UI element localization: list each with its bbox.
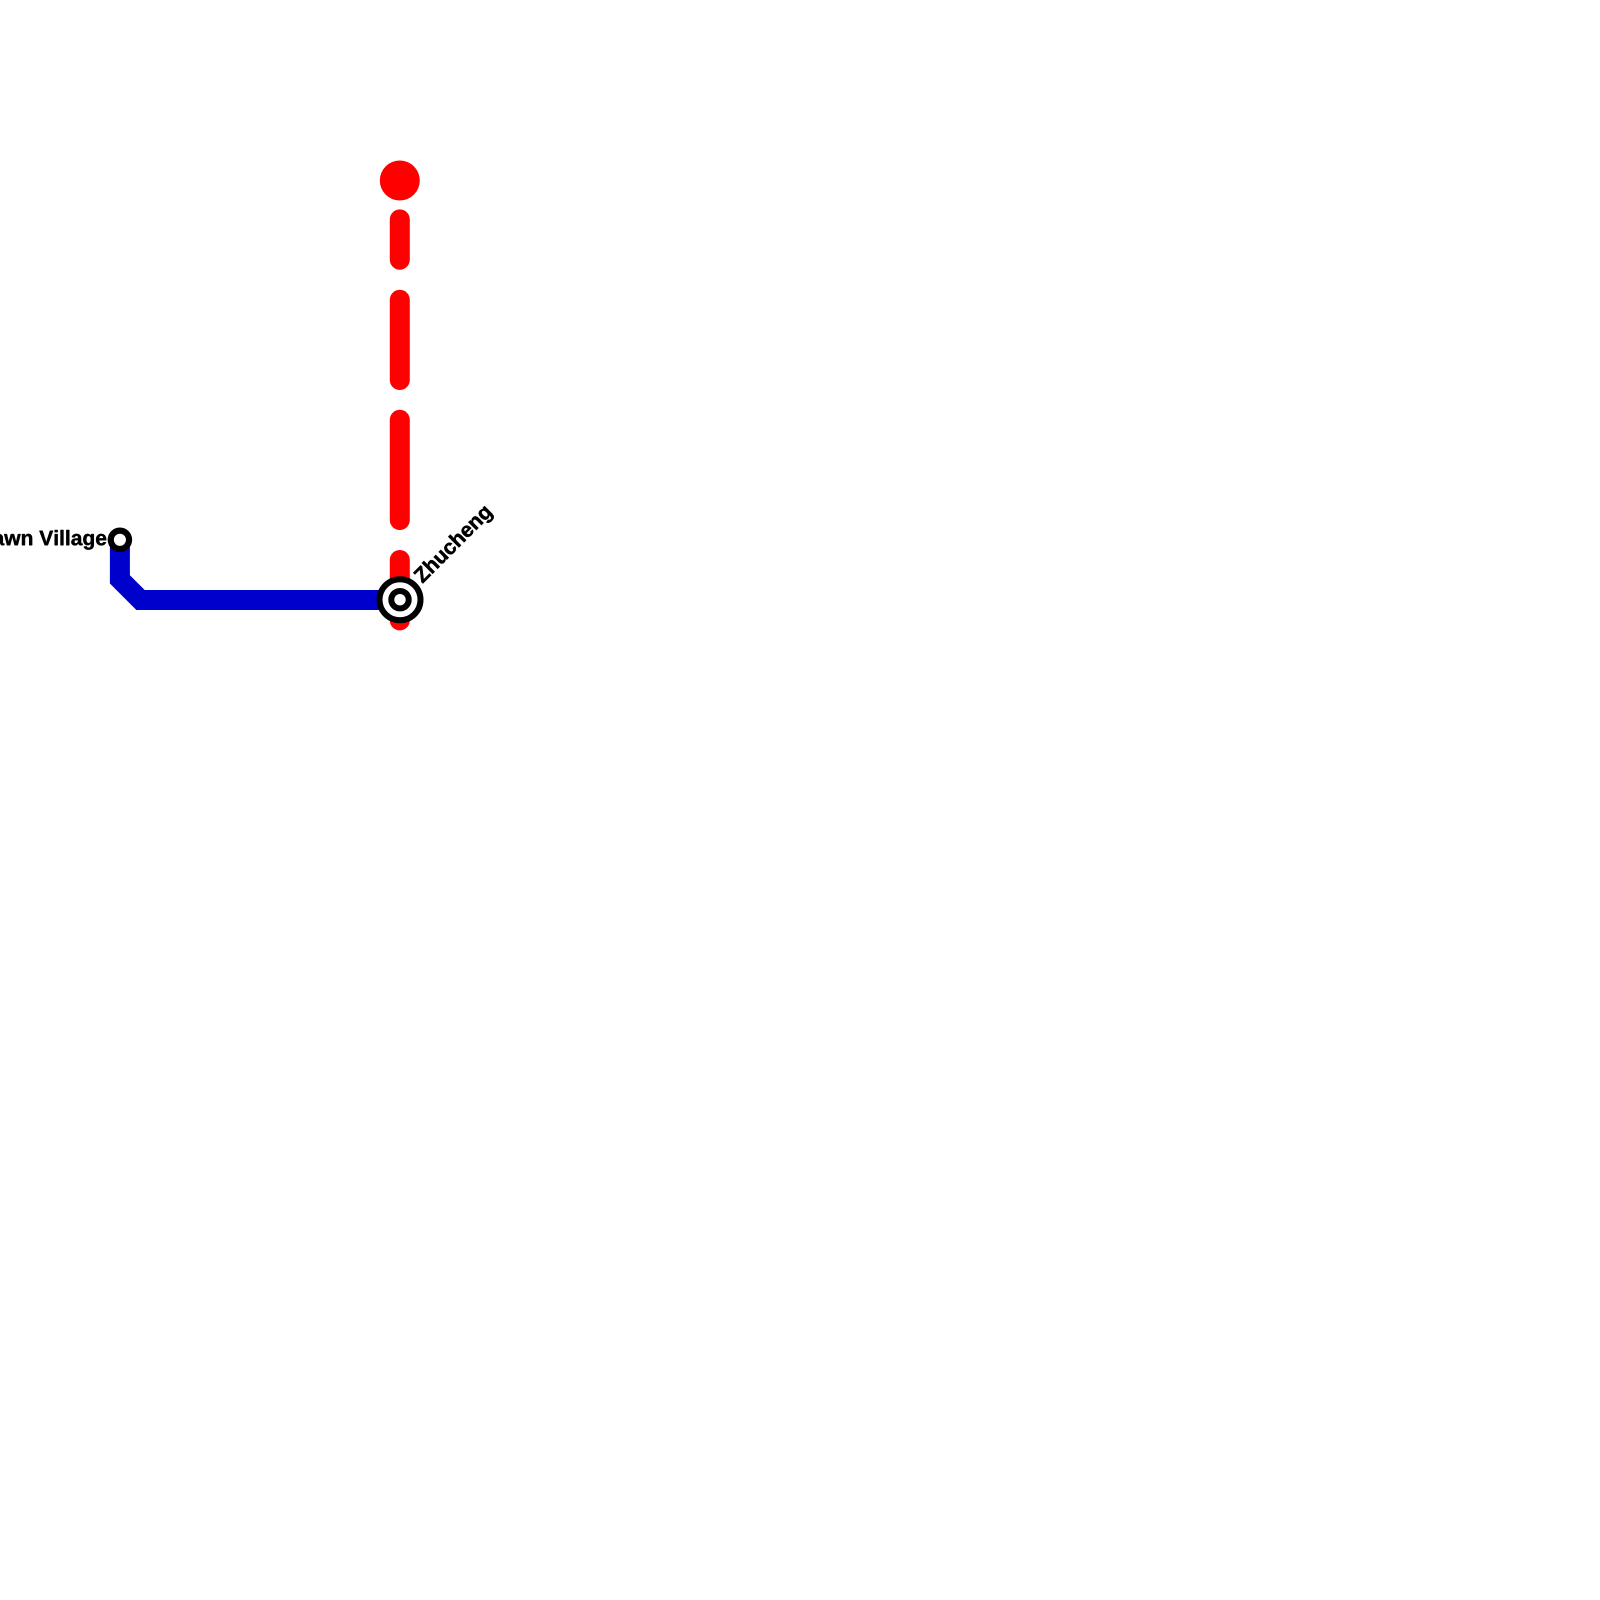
red line dash 1	[390, 219, 410, 259]
label Dawn Village	[0, 530, 106, 550]
interchange Zhucheng inner ring	[391, 591, 408, 608]
red line dash 2	[390, 300, 410, 380]
blue line	[120, 540, 400, 600]
red line terminus dot	[380, 161, 420, 201]
station Dawn Village	[111, 531, 129, 549]
label Zhucheng	[412, 503, 495, 586]
red line dash 3	[390, 420, 410, 520]
red line dash 4	[390, 560, 410, 620]
interchange Zhucheng outer ring	[380, 579, 421, 620]
